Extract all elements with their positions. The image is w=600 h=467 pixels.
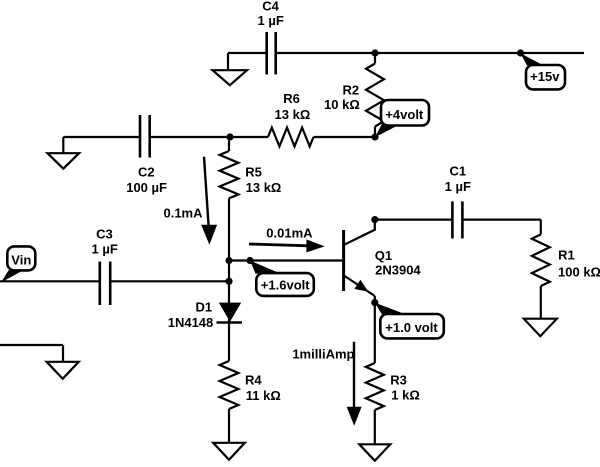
svg-text:1 kΩ: 1 kΩ bbox=[391, 388, 420, 403]
svg-text:100 µF: 100 µF bbox=[126, 180, 167, 195]
svg-text:1N4148: 1N4148 bbox=[168, 315, 214, 330]
svg-text:13 kΩ: 13 kΩ bbox=[246, 180, 282, 195]
svg-text:1 µF: 1 µF bbox=[445, 179, 471, 194]
svg-text:11 kΩ: 11 kΩ bbox=[246, 388, 281, 403]
svg-text:1milliAmp: 1milliAmp bbox=[292, 346, 354, 361]
svg-text:10 kΩ: 10 kΩ bbox=[324, 97, 360, 112]
svg-text:Q1: Q1 bbox=[375, 248, 392, 263]
svg-text:13 kΩ: 13 kΩ bbox=[275, 107, 311, 122]
svg-text:0.01mA: 0.01mA bbox=[266, 226, 313, 241]
svg-text:C2: C2 bbox=[138, 164, 155, 179]
svg-text:R2: R2 bbox=[342, 83, 359, 98]
svg-text:R1: R1 bbox=[558, 248, 575, 263]
svg-text:R4: R4 bbox=[245, 373, 262, 388]
svg-text:1 µF: 1 µF bbox=[258, 13, 284, 28]
svg-text:1 µF: 1 µF bbox=[92, 242, 118, 257]
svg-text:C1: C1 bbox=[449, 164, 466, 179]
svg-text:C3: C3 bbox=[96, 226, 113, 241]
svg-text:+4volt: +4volt bbox=[385, 107, 424, 122]
svg-text:+1.6volt: +1.6volt bbox=[261, 278, 310, 293]
svg-text:100 kΩ: 100 kΩ bbox=[558, 265, 600, 280]
svg-text:0.1mA: 0.1mA bbox=[163, 206, 203, 221]
svg-text:Vin: Vin bbox=[11, 253, 31, 268]
svg-text:C4: C4 bbox=[262, 0, 279, 13]
svg-text:R3: R3 bbox=[390, 373, 407, 388]
svg-text:2N3904: 2N3904 bbox=[375, 262, 421, 277]
svg-text:R6: R6 bbox=[283, 91, 300, 106]
svg-text:D1: D1 bbox=[195, 300, 212, 315]
svg-text:+1.0 volt: +1.0 volt bbox=[385, 320, 438, 335]
svg-text:+15v: +15v bbox=[530, 69, 560, 84]
svg-text:R5: R5 bbox=[245, 165, 262, 180]
